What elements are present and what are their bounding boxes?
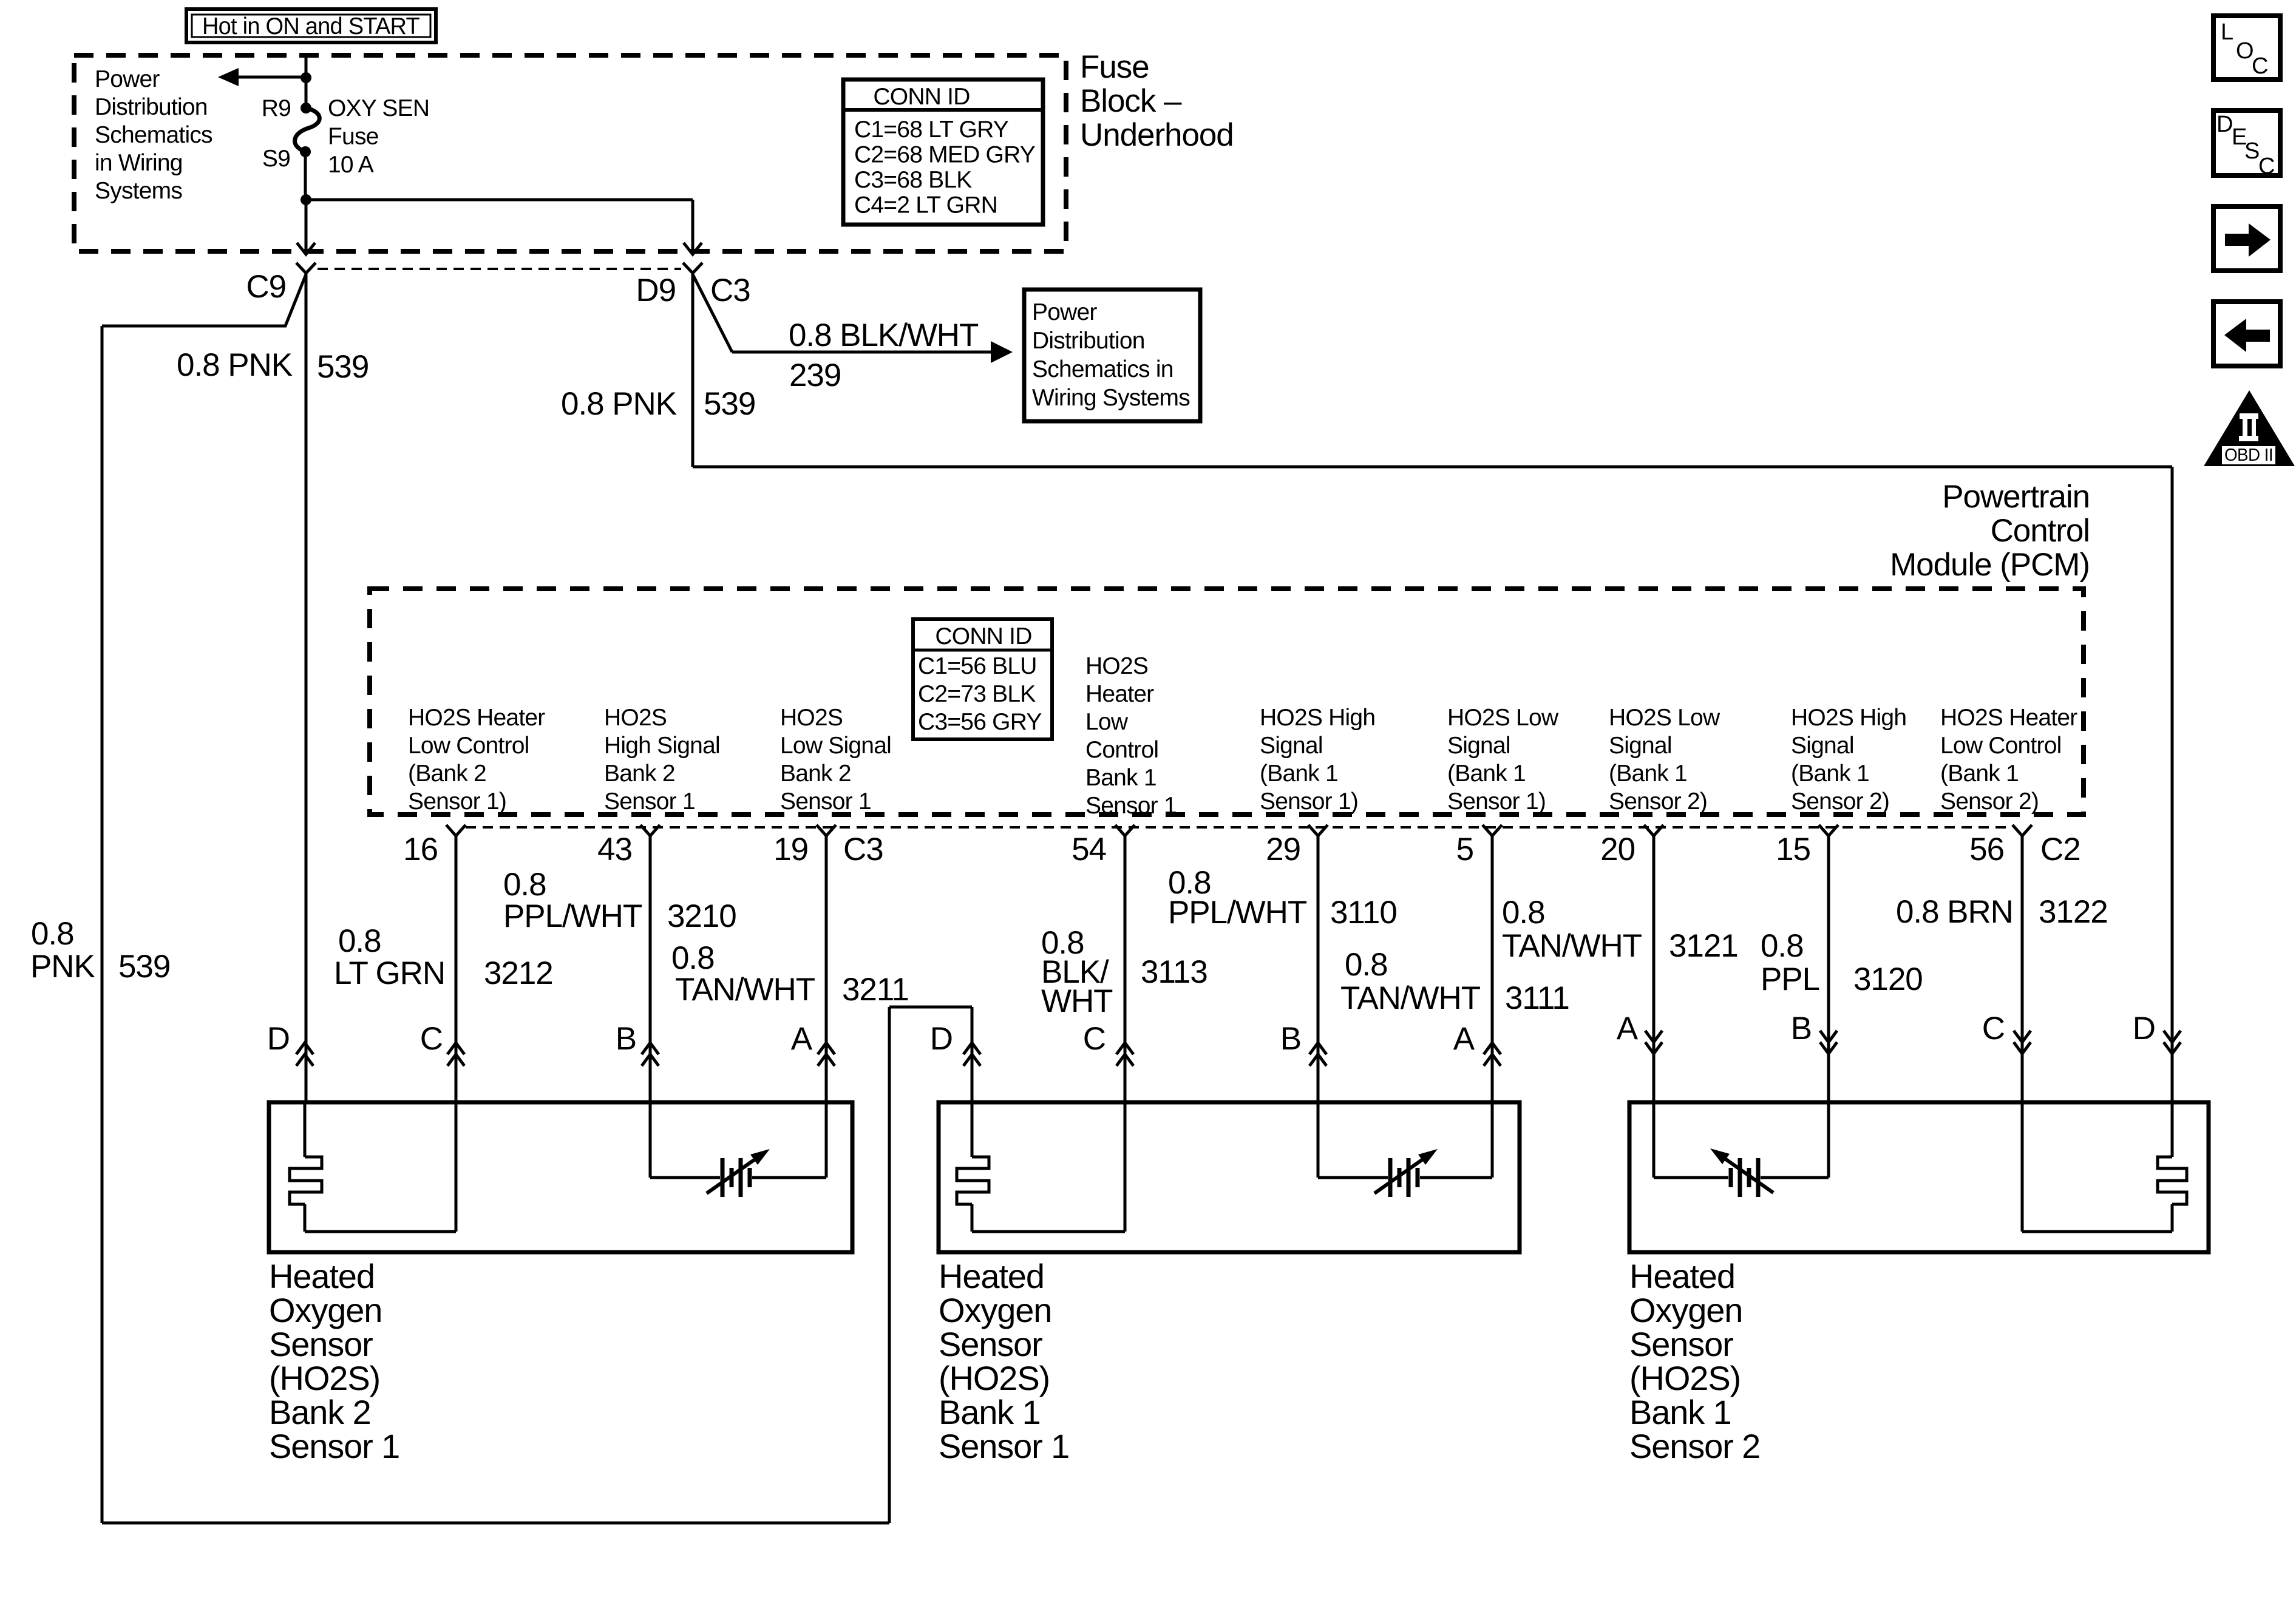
PCM connector pin 15 (chevron): [1819, 825, 1838, 836]
svg-text:A: A: [1617, 1011, 1639, 1046]
svg-text:0.8: 0.8: [1345, 947, 1388, 983]
wire 3120: PCM pin 15 down to sensor box: [1827, 836, 1830, 1104]
svg-text:Schematics: Schematics: [95, 122, 212, 148]
arrow to power distribution (left): [239, 76, 306, 79]
fuse block dashed border (Fuse Block - Underhood): [74, 55, 1066, 251]
svg-text:PNK: PNK: [30, 949, 95, 985]
in-line connector on wire x=1361 (double chevron up): [818, 1043, 835, 1054]
svg-text:3110: 3110: [1330, 895, 1397, 931]
svg-text:HO2S High: HO2S High: [1791, 705, 1906, 731]
svg-text:Heated: Heated: [269, 1257, 375, 1295]
svg-text:Schematics in: Schematics in: [1032, 356, 1173, 382]
svg-text:Signal: Signal: [1447, 733, 1510, 759]
svg-text:OXY SEN: OXY SEN: [328, 95, 429, 121]
heater return wire (bank1 sensor2): [2022, 1230, 2172, 1233]
icon: DESC box: [2213, 110, 2280, 175]
svg-text:C3=68 BLK: C3=68 BLK: [854, 167, 972, 193]
svg-text:Low Control: Low Control: [408, 733, 529, 759]
in-line connector on wire x=1071 (double chevron up): [642, 1043, 659, 1054]
svg-text:HO2S High: HO2S High: [1260, 705, 1375, 731]
box: Heated Oxygen Sensor (HO2S) Bank 1 Sensor 2: [1629, 1102, 2209, 1252]
svg-text:A: A: [791, 1021, 813, 1057]
svg-text:Power: Power: [95, 66, 160, 92]
svg-text:Sensor 1: Sensor 1: [780, 788, 871, 815]
wire 3111: PCM pin 5 down to sensor box: [1491, 836, 1494, 1104]
svg-text:0.8 BLK/WHT: 0.8 BLK/WHT: [789, 317, 979, 353]
svg-text:CONN ID: CONN ID: [873, 84, 970, 110]
sensor element (bank2 sensor1) - variable cell: [649, 1102, 652, 1178]
PCM connector pin 54 (chevron): [1115, 825, 1135, 836]
icon: forward arrow box: [2213, 206, 2280, 271]
in-line connector on wire x=1601 (double chevron up): [963, 1043, 980, 1054]
svg-text:C: C: [420, 1021, 443, 1057]
sensor arrow (bank1 sensor2): [1720, 1155, 1773, 1193]
wire 239: arrow to power distribution schematics: [732, 351, 991, 354]
sensor element (bank1 sensor1) - variable cell: [1317, 1102, 1320, 1178]
svg-text:in Wiring: in Wiring: [95, 150, 183, 176]
wire 539: D9 drop: [691, 274, 695, 467]
svg-text:(HO2S): (HO2S): [1629, 1359, 1741, 1397]
wire 3113: PCM pin 54 down to sensor box: [1124, 836, 1127, 1104]
svg-text:Control: Control: [1991, 513, 2090, 549]
svg-text:Low: Low: [1085, 709, 1129, 735]
in-line connector on wire x=3578 (double chevron down): [2164, 1031, 2181, 1042]
svg-text:Systems: Systems: [95, 178, 182, 204]
svg-text:TAN/WHT: TAN/WHT: [675, 972, 815, 1008]
sensor arrow (bank2 sensor1): [707, 1156, 760, 1193]
svg-text:C4=2 LT GRN: C4=2 LT GRN: [854, 192, 997, 219]
svg-text:S: S: [2244, 138, 2260, 164]
svg-text:(Bank 1: (Bank 1: [1940, 761, 2019, 787]
svg-text:Signal: Signal: [1260, 733, 1323, 759]
svg-text:(Bank 2: (Bank 2: [408, 761, 486, 787]
in-line connector on wire x=2171 (double chevron up): [1309, 1043, 1326, 1054]
svg-text:Wiring Systems: Wiring Systems: [1032, 385, 1190, 411]
wire 539: long horizontal run to right side: [693, 466, 2172, 469]
svg-text:Sensor: Sensor: [269, 1325, 373, 1363]
svg-text:O: O: [2236, 38, 2254, 64]
svg-text:3211: 3211: [842, 972, 909, 1008]
heater element (bank1 sensor1): [971, 1102, 974, 1157]
wire 3211: PCM pin 19 down to sensor box: [825, 836, 828, 1104]
wire 539: riser between boxes: [888, 1007, 891, 1523]
node: junction dot at fuse input: [301, 72, 311, 83]
PCM connector pin 19 (chevron): [817, 825, 836, 836]
connector pin D9 (chevron): [683, 263, 702, 273]
wire 539: top jog to D pin of bank1 sensor1: [889, 1006, 972, 1009]
svg-text:PPL/WHT: PPL/WHT: [1168, 895, 1307, 931]
svg-text:0.8: 0.8: [1502, 895, 1545, 931]
svg-text:L: L: [2221, 19, 2233, 45]
svg-text:Oxygen: Oxygen: [939, 1291, 1051, 1329]
svg-text:Low Control: Low Control: [1940, 733, 2062, 759]
in-line connector on wire x=2458 (double chevron up): [1484, 1043, 1501, 1054]
svg-text:TAN/WHT: TAN/WHT: [1502, 928, 1642, 964]
svg-text:S9: S9: [262, 146, 290, 172]
svg-text:Sensor 2: Sensor 2: [1629, 1427, 1760, 1465]
PCM connector pin 29 (chevron): [1308, 825, 1328, 836]
wire 539: bottom run to HO2S bank1 sensor1: [102, 1522, 889, 1525]
svg-text:HO2S: HO2S: [1085, 653, 1148, 679]
svg-text:Heater: Heater: [1085, 681, 1154, 707]
svg-text:0.8: 0.8: [503, 867, 546, 903]
svg-text:(Bank 1: (Bank 1: [1791, 761, 1869, 787]
wire: D9 drop with arrow: [691, 200, 695, 253]
svg-text:PPL/WHT: PPL/WHT: [503, 898, 642, 934]
svg-text:Bank 2: Bank 2: [604, 761, 675, 787]
svg-text:B: B: [1791, 1011, 1812, 1046]
box: Heated Oxygen Sensor (HO2S) Bank 2 Sensor 1: [269, 1102, 852, 1252]
svg-text:Distribution: Distribution: [1032, 328, 1145, 354]
svg-text:0.8 BRN: 0.8 BRN: [1896, 894, 2013, 930]
svg-text:C: C: [1083, 1021, 1106, 1057]
svg-text:20: 20: [1600, 832, 1635, 867]
svg-text:Bank 1: Bank 1: [1085, 765, 1156, 791]
svg-text:29: 29: [1266, 832, 1300, 867]
PCM connector pin 20 (chevron): [1644, 825, 1663, 836]
svg-text:(HO2S): (HO2S): [939, 1359, 1050, 1397]
svg-text:D: D: [930, 1021, 953, 1057]
svg-text:16: 16: [403, 832, 438, 867]
svg-text:10 A: 10 A: [328, 152, 374, 178]
svg-text:3121: 3121: [1669, 928, 1738, 964]
svg-text:0.8: 0.8: [671, 940, 715, 976]
box: Heated Oxygen Sensor (HO2S) Bank 1 Sensor 1: [939, 1102, 1520, 1252]
svg-text:0.8 PNK: 0.8 PNK: [561, 386, 677, 422]
svg-text:TAN/WHT: TAN/WHT: [1340, 980, 1481, 1016]
wire 539: left vertical run: [101, 326, 104, 1523]
svg-text:C2=68 MED GRY: C2=68 MED GRY: [854, 142, 1036, 168]
svg-text:54: 54: [1072, 832, 1106, 867]
PCM connector pin 16 (chevron): [446, 825, 466, 836]
svg-text:3210: 3210: [667, 898, 736, 934]
svg-text:Module (PCM): Module (PCM): [1890, 547, 2090, 583]
svg-text:Sensor: Sensor: [939, 1325, 1042, 1363]
svg-text:Signal: Signal: [1609, 733, 1672, 759]
svg-text:0.8 PNK: 0.8 PNK: [177, 347, 293, 383]
svg-text:CONN ID: CONN ID: [935, 623, 1031, 649]
in-line connector on wire x=1853 (double chevron up): [1116, 1043, 1133, 1054]
svg-text:Underhood: Underhood: [1080, 117, 1234, 153]
svg-text:C9: C9: [246, 269, 286, 305]
heater element (bank1 sensor2): [2171, 1102, 2174, 1157]
svg-text:0.8: 0.8: [31, 916, 74, 952]
fuse F: OXY SEN Fuse 10 A - terminal R9: [301, 103, 311, 114]
svg-text:Powertrain: Powertrain: [1942, 479, 2090, 515]
svg-text:Sensor 2): Sensor 2): [1609, 788, 1707, 815]
svg-text:OBD II: OBD II: [2224, 446, 2273, 465]
svg-text:5: 5: [1456, 832, 1473, 867]
in-line connector on wire x=502 (double chevron up): [296, 1043, 313, 1054]
svg-text:Bank 2: Bank 2: [269, 1393, 371, 1431]
CONN ID table (fuse block): [843, 80, 1043, 225]
svg-text:Sensor 1): Sensor 1): [408, 788, 506, 815]
svg-text:C2: C2: [2040, 832, 2080, 867]
svg-text:D: D: [2133, 1011, 2155, 1046]
svg-text:19: 19: [773, 832, 808, 867]
wire 239: D9 diagonal to arrow: [693, 274, 732, 352]
svg-text:(Bank 1: (Bank 1: [1260, 761, 1338, 787]
fuse F: terminal S9: [300, 146, 311, 157]
svg-text:D: D: [267, 1021, 290, 1057]
svg-text:High Signal: High Signal: [604, 733, 720, 759]
svg-text:539: 539: [317, 349, 369, 385]
svg-text:Bank 2: Bank 2: [780, 761, 851, 787]
connector boundary thin dashed line C9-D9: [318, 268, 681, 270]
svg-text:Sensor 1: Sensor 1: [939, 1427, 1069, 1465]
icon: back arrow box: [2213, 302, 2280, 366]
sensor arrow (bank1 sensor1): [1374, 1156, 1428, 1193]
connector pin C9 (chevron): [296, 263, 316, 273]
svg-text:C1=56 BLU: C1=56 BLU: [918, 653, 1037, 679]
svg-text:C: C: [1982, 1011, 2005, 1046]
box: Hot in ON and START: [186, 9, 436, 42]
svg-text:539: 539: [704, 386, 755, 422]
svg-text:539: 539: [118, 949, 170, 985]
in-line connector on wire x=751 (double chevron up): [447, 1043, 464, 1054]
fuse F: element curve: [295, 108, 320, 152]
svg-text:Bank 1: Bank 1: [939, 1393, 1041, 1431]
svg-text:C: C: [2252, 53, 2268, 79]
svg-text:Heated: Heated: [939, 1257, 1044, 1295]
PCM connector pin 5 (chevron): [1483, 825, 1502, 836]
wire: fuse output S9 down to junction: [304, 152, 307, 200]
svg-text:WHT: WHT: [1041, 983, 1113, 1019]
svg-text:3122: 3122: [2039, 894, 2108, 930]
svg-text:Fuse: Fuse: [328, 124, 379, 150]
svg-text:0.8: 0.8: [1761, 928, 1804, 964]
svg-text:3111: 3111: [1505, 980, 1569, 1016]
svg-text:56: 56: [1969, 832, 2004, 867]
svg-text:HO2S Heater: HO2S Heater: [1940, 705, 2077, 731]
svg-text:(HO2S): (HO2S): [269, 1359, 380, 1397]
wire 3122: PCM pin 56 down to sensor box: [2021, 836, 2024, 1104]
svg-text:C1=68 LT GRY: C1=68 LT GRY: [854, 117, 1009, 143]
in-line connector on wire x=3331 (double chevron down): [2014, 1031, 2031, 1042]
svg-text:Signal: Signal: [1791, 733, 1854, 759]
svg-text:3120: 3120: [1853, 961, 1923, 997]
svg-text:HO2S: HO2S: [780, 705, 843, 731]
svg-text:Bank 1: Bank 1: [1629, 1393, 1731, 1431]
svg-text:Sensor 2): Sensor 2): [1940, 788, 2039, 815]
svg-text:D: D: [2216, 112, 2233, 137]
svg-text:R9: R9: [262, 95, 291, 121]
PCM dashed box (Powertrain Control Module): [370, 589, 2084, 815]
wire 539: right vertical run to HO2S bank1 sensor2 D pin: [2171, 467, 2174, 1104]
svg-text:B: B: [1280, 1021, 1301, 1057]
svg-text:239: 239: [789, 358, 841, 393]
svg-text:15: 15: [1776, 832, 1810, 867]
svg-text:HO2S Low: HO2S Low: [1447, 705, 1559, 731]
sensor element (bank1 sensor2) - variable cell: [1652, 1102, 1656, 1178]
node: junction dot below fuse: [301, 194, 311, 205]
svg-text:Oxygen: Oxygen: [1629, 1291, 1742, 1329]
heater return wire (bank2 sensor1): [305, 1230, 456, 1233]
svg-text:Fuse: Fuse: [1080, 49, 1149, 85]
heater return wire (bank1 sensor1): [972, 1230, 1125, 1233]
svg-text:Low Signal: Low Signal: [780, 733, 891, 759]
heater element (bank2 sensor1): [304, 1102, 307, 1157]
svg-text:Sensor 1: Sensor 1: [604, 788, 695, 815]
svg-text:D9: D9: [636, 273, 676, 308]
svg-text:(Bank 1: (Bank 1: [1609, 761, 1687, 787]
junction wire from Hot in ON and START box: [305, 53, 308, 109]
wire 3110: PCM pin 29 down to sensor box: [1317, 836, 1320, 1104]
icon: LOC box: [2213, 16, 2280, 80]
svg-text:Block –: Block –: [1080, 83, 1182, 119]
svg-text:Sensor 1: Sensor 1: [269, 1427, 399, 1465]
svg-text:Sensor 1): Sensor 1): [1260, 788, 1358, 815]
svg-text:Oxygen: Oxygen: [269, 1291, 382, 1329]
svg-text:(Bank 1: (Bank 1: [1447, 761, 1526, 787]
PCM connector pin 56 (chevron): [2012, 825, 2032, 836]
in-line connector on wire x=3012 (double chevron down): [1820, 1031, 1837, 1042]
wire: junction to D9 (horizontal): [306, 198, 693, 202]
svg-text:HO2S: HO2S: [604, 705, 667, 731]
svg-text:3113: 3113: [1141, 954, 1207, 990]
svg-text:Sensor 1): Sensor 1): [1447, 788, 1546, 815]
svg-text:C3=56 GRY: C3=56 GRY: [918, 709, 1042, 735]
svg-text:LT GRN: LT GRN: [334, 955, 445, 991]
in-line connector on wire x=2724 (double chevron down): [1645, 1031, 1662, 1042]
wire 539: C9 diagonal branch to left run: [102, 274, 306, 326]
wire: fuse output down to C9 with arrow: [305, 200, 308, 253]
svg-text:Hot in ON and START: Hot in ON and START: [202, 13, 419, 39]
svg-text:PPL: PPL: [1761, 961, 1819, 997]
svg-text:HO2S Heater: HO2S Heater: [408, 705, 545, 731]
svg-text:Distribution: Distribution: [95, 94, 208, 120]
svg-text:C2=73 BLK: C2=73 BLK: [918, 681, 1036, 707]
svg-text:C: C: [2258, 154, 2275, 179]
wire 3121: PCM pin 20 down to sensor box: [1652, 836, 1656, 1104]
box: Power Distribution Schematics in Wiring Systems: [1024, 290, 1200, 421]
CONN ID table (PCM): [913, 619, 1052, 739]
svg-text:HO2S Low: HO2S Low: [1609, 705, 1720, 731]
wire 3212: PCM pin 16 down to sensor box: [455, 836, 458, 1104]
svg-text:Heated: Heated: [1629, 1257, 1735, 1295]
svg-text:A: A: [1453, 1021, 1475, 1057]
connector boundary thin dashed line at PCM: [466, 826, 2012, 829]
svg-text:Control: Control: [1085, 737, 1158, 763]
svg-text:Sensor: Sensor: [1629, 1325, 1733, 1363]
svg-text:Sensor 1: Sensor 1: [1085, 793, 1177, 819]
icon: OBD II triangle: [2204, 390, 2295, 466]
svg-text:Power: Power: [1032, 299, 1097, 325]
svg-text:0.8: 0.8: [338, 923, 381, 959]
wire 539: C9 straight down to HO2S bank2 sensor1 D pin: [305, 274, 308, 1104]
svg-text:B: B: [616, 1021, 636, 1057]
wire 3210: PCM pin 43 down to sensor box: [649, 836, 652, 1104]
svg-text:3212: 3212: [484, 955, 553, 991]
svg-text:C3: C3: [710, 273, 750, 308]
svg-text:43: 43: [597, 832, 632, 867]
svg-text:C3: C3: [843, 832, 883, 867]
svg-text:Sensor 2): Sensor 2): [1791, 788, 1889, 815]
PCM connector pin 43 (chevron): [640, 825, 660, 836]
